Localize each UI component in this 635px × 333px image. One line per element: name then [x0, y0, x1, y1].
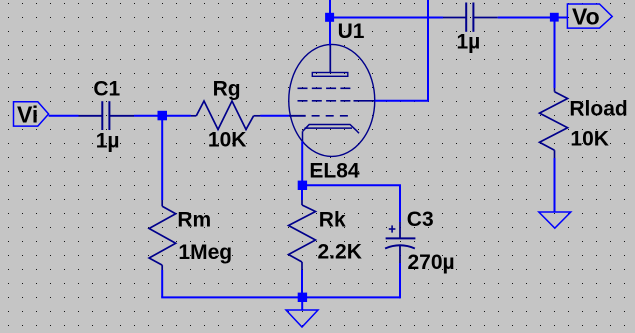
- wire top rail left: [330, 17, 443, 19]
- svg-text:10K: 10K: [570, 127, 609, 150]
- wire screen to top rail: [375, 0, 428, 101]
- resistor Rk: [289, 200, 316, 270]
- wire anode above tube: [329, 0, 331, 46]
- svg-text:1µ: 1µ: [457, 31, 481, 54]
- tube U1 envelope: [289, 44, 375, 156]
- wire Vi to C1: [49, 115, 79, 117]
- plus sign of C3: [389, 225, 396, 232]
- wire C1 to Rg: [134, 115, 191, 117]
- node junction anode: [325, 13, 334, 22]
- screen grid dashes g2: [298, 100, 375, 102]
- svg-text:2.2K: 2.2K: [318, 241, 362, 264]
- resistor Rm: [149, 200, 176, 270]
- suppressor grid dashes g3: [298, 87, 351, 89]
- anode lead inside tube: [329, 45, 331, 73]
- wire cathode down to junction: [301, 142, 303, 187]
- wire Cout to Vo: [498, 17, 568, 19]
- svg-text:270µ: 270µ: [408, 251, 455, 274]
- svg-text:C1: C1: [93, 78, 120, 101]
- grid lead of U1: [289, 115, 306, 117]
- resistor Rload: [540, 88, 568, 158]
- svg-text:Rm: Rm: [177, 208, 211, 231]
- capacitor C3: [385, 222, 415, 263]
- anode plate of U1: [312, 73, 348, 77]
- wire Rg to tube grid: [260, 115, 289, 117]
- wire Rload to ground: [554, 158, 556, 212]
- svg-text:1Meg: 1Meg: [178, 241, 232, 264]
- resistor Rg: [191, 101, 260, 130]
- wire cathode junction to Rk: [301, 186, 303, 200]
- svg-text:10K: 10K: [208, 128, 247, 151]
- ground (bottom middle): [286, 310, 318, 327]
- node junction bottom rail: [298, 293, 307, 302]
- svg-text:EL84: EL84: [309, 160, 360, 183]
- port Vo: [567, 4, 612, 28]
- capacitor Cout: [443, 3, 498, 32]
- wire Rk to bottom rail: [301, 270, 303, 297]
- node junction cathode: [298, 181, 307, 190]
- node junction at grid input: [158, 111, 168, 121]
- svg-text:1µ: 1µ: [96, 129, 120, 152]
- svg-text:Vi: Vi: [17, 101, 38, 127]
- svg-text:C3: C3: [407, 208, 434, 231]
- control grid dashes g1: [312, 115, 348, 117]
- svg-text:Rload: Rload: [569, 97, 627, 120]
- capacitor C1: [79, 101, 135, 130]
- wire bottom rail: [161, 296, 400, 298]
- cathode of U1: [303, 125, 360, 142]
- ground (right): [539, 212, 571, 228]
- wire Rm to bottom rail: [161, 270, 163, 297]
- svg-text:Rg: Rg: [213, 77, 241, 100]
- port Vi: [14, 102, 49, 126]
- wire ground stub: [301, 297, 303, 310]
- wire output down to Rload: [554, 18, 556, 89]
- svg-text:U1: U1: [338, 20, 365, 43]
- node junction output: [550, 13, 559, 22]
- wire junction to C3 top: [302, 185, 400, 222]
- svg-text:Vo: Vo: [572, 3, 600, 29]
- wire junction down to Rm: [161, 116, 163, 200]
- wire C3 bottom to rail: [399, 263, 401, 298]
- svg-text:Rk: Rk: [319, 208, 346, 231]
